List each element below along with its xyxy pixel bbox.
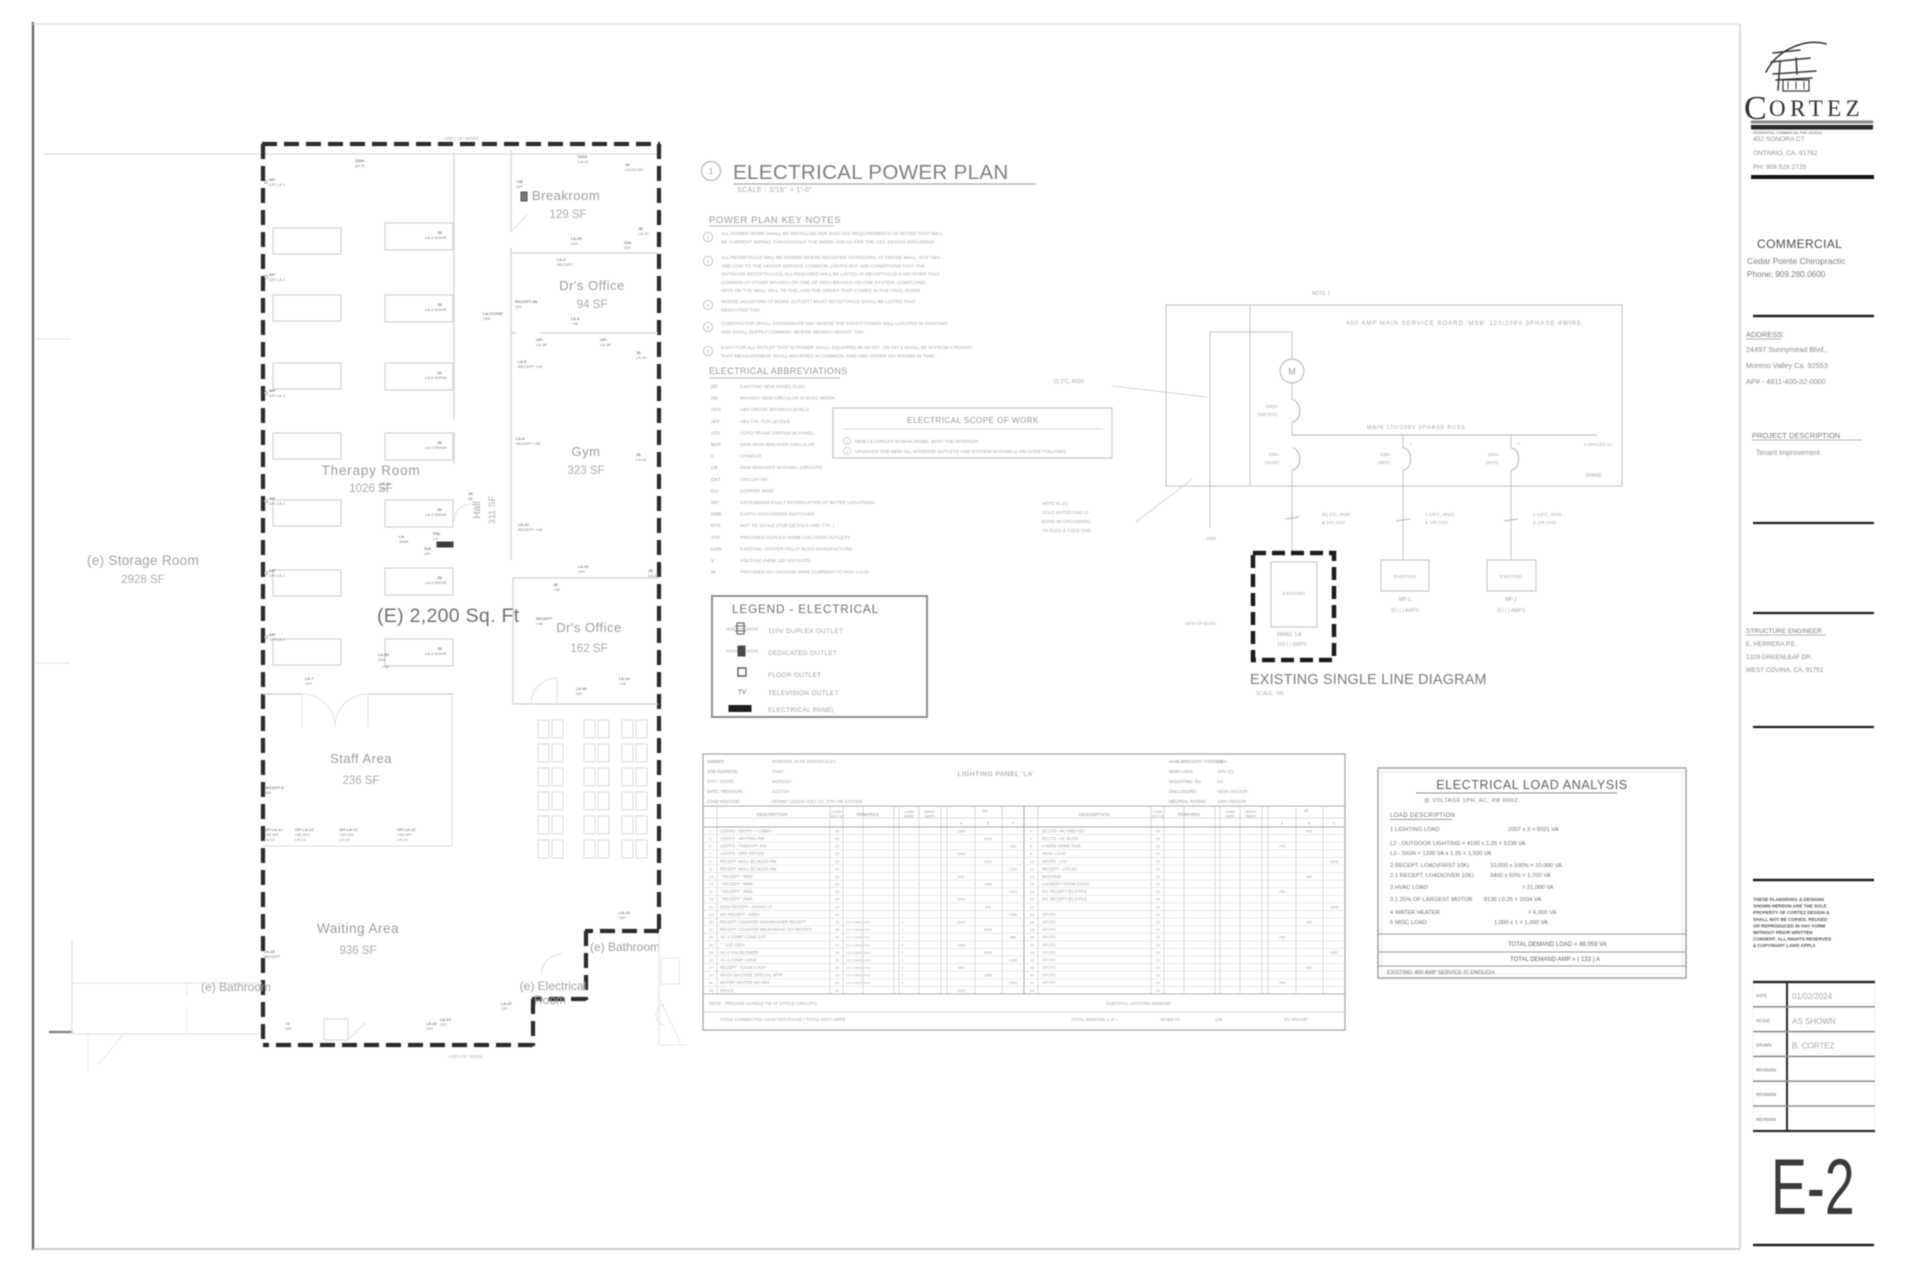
svg-text:SPARE: SPARE bbox=[1042, 950, 1056, 955]
revision table bbox=[1753, 982, 1875, 1131]
title block divider 3 bbox=[1753, 522, 1874, 524]
svg-text:12: 12 bbox=[1030, 867, 1034, 871]
svg-text:MAIN BREAKER / FEEDER:: MAIN BREAKER / FEEDER: bbox=[1169, 759, 1224, 764]
meter stub wire bbox=[1210, 331, 1292, 333]
key note 5 bubble bbox=[703, 346, 712, 355]
svg-text:RECEPT +48: RECEPT +48 bbox=[518, 527, 543, 532]
svg-text:BRKR: BRKR bbox=[1246, 810, 1256, 814]
svg-text:20: 20 bbox=[835, 829, 839, 833]
load analysis outer box bbox=[1378, 768, 1686, 978]
svg-text:GFI LA-1: GFI LA-1 bbox=[269, 393, 286, 398]
chair c1 r1 bbox=[538, 720, 549, 738]
svg-text:RECEPT - LTS (E): RECEPT - LTS (E) bbox=[1042, 866, 1077, 871]
svg-text:20: 20 bbox=[1156, 936, 1160, 940]
svg-text:A: A bbox=[960, 822, 963, 826]
svg-text:GFI: GFI bbox=[624, 245, 631, 250]
svg-text:GFI: GFI bbox=[515, 304, 522, 309]
svg-text:LA-44: LA-44 bbox=[648, 573, 659, 578]
svg-text:(E) 2"C, 4#3/0: (E) 2"C, 4#3/0 bbox=[1322, 512, 1351, 517]
svg-text:100A: 100A bbox=[1217, 759, 1227, 764]
svg-text:DATE / REVISION:: DATE / REVISION: bbox=[707, 789, 743, 794]
svg-text:11: 11 bbox=[709, 867, 713, 871]
svg-text:20: 20 bbox=[835, 883, 839, 887]
svg-text:100A: 100A bbox=[1487, 452, 1498, 457]
svg-text:750: 750 bbox=[1279, 936, 1285, 940]
svg-text:323 SF: 323 SF bbox=[567, 465, 604, 477]
storage shelf wall tick b bbox=[34, 662, 70, 664]
svg-text:1080: 1080 bbox=[1009, 913, 1017, 917]
svg-text:MORENO: MORENO bbox=[772, 779, 792, 784]
svg-text:2: 2 bbox=[901, 966, 903, 970]
svg-text:CONDUIT: CONDUIT bbox=[740, 454, 762, 460]
svg-text:2: 2 bbox=[901, 920, 903, 924]
svg-text:20: 20 bbox=[1156, 928, 1160, 932]
svg-text:19: 19 bbox=[709, 898, 713, 902]
svg-text:+48: +48 bbox=[571, 321, 579, 326]
svg-text:LA-40: LA-40 bbox=[636, 355, 647, 360]
therapy bed L1 bbox=[273, 228, 341, 254]
svg-text:(N): (N) bbox=[711, 396, 718, 402]
therapy bed L6 bbox=[273, 570, 341, 596]
svg-text:20: 20 bbox=[1156, 890, 1160, 894]
svg-text:1500: 1500 bbox=[1009, 890, 1017, 894]
svg-text:20: 20 bbox=[835, 943, 839, 947]
svg-text:RECEPT: RECEPT bbox=[264, 954, 281, 959]
svg-text:1: 1 bbox=[1518, 441, 1521, 446]
svg-text:TELEVISION OUTLET: TELEVISION OUTLET bbox=[768, 690, 839, 697]
svg-text:1500: 1500 bbox=[1330, 905, 1338, 909]
svg-text:4 WATER HEATER: 4 WATER HEATER bbox=[1390, 910, 1440, 916]
table row line 17 bbox=[703, 955, 1345, 957]
svg-text:WATER HEATER 20A WH: WATER HEATER 20A WH bbox=[720, 980, 769, 985]
svg-text:23: 23 bbox=[709, 913, 713, 917]
panel schedule center divider bbox=[1023, 806, 1025, 994]
svg-text:136: 136 bbox=[1215, 1017, 1223, 1022]
area-of-work dashed boundary step 1 bbox=[585, 929, 659, 933]
svg-text:39: 39 bbox=[709, 974, 713, 978]
svg-text:GFI: GFI bbox=[516, 184, 523, 189]
svg-text:ELECTRICAL PANEL: ELECTRICAL PANEL bbox=[768, 707, 835, 714]
svg-text:20: 20 bbox=[835, 898, 839, 902]
svg-text:EXISTING: EXISTING bbox=[1394, 574, 1417, 580]
panel schedule totals separator bbox=[703, 1011, 1345, 1013]
load analysis bottom separator bbox=[1378, 965, 1686, 967]
svg-text:ABV FIN. FLR LEVELS: ABV FIN. FLR LEVELS bbox=[740, 419, 790, 425]
svg-text:1200: 1200 bbox=[1009, 958, 1017, 962]
electrical room door arc bbox=[541, 954, 562, 975]
scope item 2 bbox=[843, 447, 850, 454]
svg-text:1500: 1500 bbox=[984, 951, 992, 955]
svg-text:GFI LA-1: GFI LA-1 bbox=[269, 277, 286, 282]
svg-text:1: 1 bbox=[846, 439, 849, 444]
svg-text:GROUNDING FAULT INTERRUPTER AT: GROUNDING FAULT INTERRUPTER AT WATER LOC… bbox=[740, 500, 875, 506]
svg-text:12-2 AWG #12: 12-2 AWG #12 bbox=[846, 966, 871, 970]
svg-text:LOAD VOLTAGE:: LOAD VOLTAGE: bbox=[707, 799, 741, 804]
svg-text:33: 33 bbox=[709, 951, 713, 955]
svg-text:THAT MEASUREMENT SHALL MOUNTED: THAT MEASUREMENT SHALL MOUNTED IN COMMON… bbox=[721, 353, 936, 359]
table row line 10 bbox=[703, 902, 1345, 904]
svg-text:LA-14: LA-14 bbox=[264, 837, 275, 842]
title block divider 1 bbox=[1751, 175, 1874, 179]
svg-text:RESIDENTIAL COMMERCIAL FIR: RESIDENTIAL COMMERCIAL FIRE DESIGN bbox=[1753, 131, 1822, 135]
svg-text:94 SF: 94 SF bbox=[577, 299, 608, 311]
panel schedule header band lines bbox=[703, 817, 1345, 819]
svg-text:EXISTING CENTER RELAY BLDG MAN: EXISTING CENTER RELAY BLDG MANUFACTURE bbox=[740, 546, 852, 552]
svg-text:GFI: GFI bbox=[571, 241, 578, 246]
svg-text:1: 1 bbox=[709, 829, 711, 833]
main distribution bus bbox=[1292, 434, 1597, 436]
svg-text:20: 20 bbox=[1156, 974, 1160, 978]
title block group bbox=[1744, 42, 1875, 1245]
svg-text:OWNER:: OWNER: bbox=[707, 759, 725, 764]
svg-text:E-2: E-2 bbox=[1771, 1144, 1855, 1232]
svg-text:VOLT-A: VOLT-A bbox=[830, 815, 843, 819]
svg-text:20: 20 bbox=[835, 974, 839, 978]
svg-text:EX. RECEPT (E) 6 PCS: EX. RECEPT (E) 6 PCS bbox=[1042, 889, 1087, 894]
svg-text:CB: CB bbox=[711, 465, 718, 471]
svg-text:SPARE: SPARE bbox=[1042, 919, 1056, 924]
svg-text:GFI: GFI bbox=[619, 915, 626, 920]
svg-text:2.1 RECEPT. LOAD(OVER 10K): 2.1 RECEPT. LOAD(OVER 10K) bbox=[1390, 873, 1474, 879]
service board inner divider bbox=[1249, 305, 1251, 486]
svg-text:38: 38 bbox=[1030, 966, 1034, 970]
svg-text:750: 750 bbox=[1279, 890, 1285, 894]
svg-text:01/17/24: 01/17/24 bbox=[772, 789, 789, 794]
legend dedicated outlet symbol bbox=[726, 650, 758, 653]
svg-text:200A: 200A bbox=[399, 539, 409, 544]
svg-text:AC-2 COMP COND: AC-2 COMP COND bbox=[720, 957, 757, 962]
table row line 19 bbox=[703, 970, 1345, 972]
svg-text:COPPER WIRE: COPPER WIRE bbox=[740, 488, 774, 494]
table row line 11 bbox=[703, 910, 1345, 912]
svg-text:(E) LTS - AC BLDG: (E) LTS - AC BLDG bbox=[1042, 836, 1078, 841]
feeder conduit tick MP-2 bbox=[1504, 519, 1518, 521]
svg-text:900: 900 bbox=[1306, 920, 1312, 924]
svg-text:WIRE: WIRE bbox=[1225, 815, 1235, 819]
svg-text:20: 20 bbox=[1156, 951, 1160, 955]
svg-text:311 SF: 311 SF bbox=[487, 495, 497, 524]
svg-text:EXISTING: EXISTING bbox=[1283, 591, 1306, 597]
svg-text:162 SF: 162 SF bbox=[570, 643, 607, 655]
key note 1 bubble bbox=[703, 232, 712, 241]
svg-text:CKT: CKT bbox=[711, 477, 721, 483]
therapy bed R6 bbox=[385, 568, 453, 595]
svg-text:750: 750 bbox=[1279, 981, 1285, 985]
svg-text:1-1/4"C, 4#1/0: 1-1/4"C, 4#1/0 bbox=[1533, 512, 1562, 517]
left wall receptacle symbols bbox=[264, 180, 267, 183]
sheet bottom border bbox=[33, 1248, 1740, 1250]
staff area east wall bbox=[451, 694, 453, 846]
hall door arc bbox=[454, 504, 471, 521]
legend electrical box bbox=[712, 596, 927, 717]
svg-text:DRAWN: DRAWN bbox=[1756, 1043, 1772, 1048]
svg-text:(2) 2"C, 4#3/0: (2) 2"C, 4#3/0 bbox=[1053, 379, 1084, 385]
svg-text:129 SF: 129 SF bbox=[549, 209, 586, 221]
svg-text:EX. RECEPT (E) 6 PCS: EX. RECEPT (E) 6 PCS bbox=[1042, 897, 1087, 902]
svg-text:5: 5 bbox=[709, 845, 711, 849]
svg-text:JOB ADDRESS:: JOB ADDRESS: bbox=[707, 769, 738, 774]
svg-text:AC-2 FAU BLOWER: AC-2 FAU BLOWER bbox=[720, 950, 758, 955]
area-of-work dashed boundary left bbox=[261, 144, 265, 1046]
storage room top wall bbox=[44, 153, 658, 155]
svg-text:30: 30 bbox=[1030, 936, 1034, 940]
svg-text:@ VOLTAGE 1PH, AC, 4W 60HZ: @ VOLTAGE 1PH, AC, 4W 60HZ bbox=[1424, 798, 1518, 804]
svg-text:LA-14: LA-14 bbox=[295, 837, 306, 842]
svg-text:& COPYRIGHT LAWS APPLY.: & COPYRIGHT LAWS APPLY. bbox=[1753, 943, 1816, 948]
svg-text:SPARE: SPARE bbox=[1042, 965, 1056, 970]
load analysis amp separator bbox=[1378, 951, 1686, 953]
svg-text:OR REPRODUCED IN ANY FORM: OR REPRODUCED IN ANY FORM bbox=[1753, 923, 1825, 928]
svg-text:1-1/4"C, 4#1/0: 1-1/4"C, 4#1/0 bbox=[1425, 512, 1454, 517]
svg-text:20: 20 bbox=[835, 837, 839, 841]
svg-text:WHERE MOUNTING AT WORK OUTLET: WHERE MOUNTING AT WORK OUTLET / MUST REC… bbox=[721, 299, 916, 305]
svg-text:7: 7 bbox=[709, 852, 711, 856]
table row line 1 bbox=[703, 834, 1345, 836]
svg-text:20: 20 bbox=[835, 890, 839, 894]
svg-text:16: 16 bbox=[1030, 883, 1034, 887]
area-of-work dashed boundary bottom bbox=[263, 1043, 533, 1047]
bathroom exterior wall a bbox=[72, 982, 262, 984]
svg-text:24497: 24497 bbox=[772, 769, 785, 774]
svg-text:200A (E): 200A (E) bbox=[1217, 769, 1234, 774]
svg-text:SCALE : 3/16" = 1'-0": SCALE : 3/16" = 1'-0" bbox=[737, 187, 812, 194]
svg-text:ALL POWER WORK SHALL BE INSTAL: ALL POWER WORK SHALL BE INSTALLED PER 20… bbox=[721, 231, 943, 237]
svg-text:1: 1 bbox=[709, 167, 714, 176]
svg-text:SPARE: SPARE bbox=[1042, 957, 1056, 962]
svg-text:LA: LA bbox=[433, 536, 438, 541]
table row line 6 bbox=[703, 872, 1345, 874]
key note 4 bubble bbox=[703, 322, 712, 331]
svg-text:L3 - SIGN = 1200 VA x 1.25 = 1: L3 - SIGN = 1200 VA x 1.25 = 1,500 VA bbox=[1390, 851, 1491, 857]
svg-text:236 SF: 236 SF bbox=[342, 775, 379, 787]
svg-text:TOTAL DEMAND AMP = ( 133 ) A: TOTAL DEMAND AMP = ( 133 ) A bbox=[1510, 957, 1600, 963]
svg-text:LA-9 500VA: LA-9 500VA bbox=[425, 235, 447, 240]
svg-text:REMODEL IN RE-DESIGN ELEC: REMODEL IN RE-DESIGN ELEC bbox=[772, 759, 836, 764]
table row line 7 bbox=[703, 879, 1345, 881]
chair c1 r6 bbox=[538, 840, 549, 858]
svg-text:W: W bbox=[711, 570, 716, 576]
svg-text:2: 2 bbox=[707, 259, 710, 264]
staff counter line bbox=[263, 845, 452, 847]
svg-text:NEW / 6 CIRCUIT IN MAIN PANEL: NEW / 6 CIRCUIT IN MAIN PANEL WITH THE I… bbox=[855, 439, 979, 445]
svg-text:GFI: GFI bbox=[424, 551, 431, 556]
table row line 8 bbox=[703, 887, 1345, 889]
svg-text:PERMIT 120/240 VOLT AC, 3 PH 4: PERMIT 120/240 VOLT AC, 3 PH 4W SYSTEM bbox=[772, 799, 863, 804]
svg-text:AREA OF WORK: AREA OF WORK bbox=[444, 136, 479, 141]
svg-text:8136 | 0.25 = 2034 VA: 8136 | 0.25 = 2034 VA bbox=[1484, 897, 1541, 903]
svg-text:REMARKS: REMARKS bbox=[857, 812, 879, 817]
svg-text:NOT TO SCALE (FOR DETAILS AND: NOT TO SCALE (FOR DETAILS AND TYP. ) bbox=[740, 523, 835, 529]
svg-text:Waiting Area: Waiting Area bbox=[317, 921, 399, 936]
svg-text:1200: 1200 bbox=[957, 898, 965, 902]
floor plan group bbox=[44, 136, 687, 1071]
svg-text:GND: GND bbox=[1206, 536, 1217, 541]
svg-text:1080: 1080 bbox=[984, 883, 992, 887]
svg-text:24: 24 bbox=[1030, 913, 1034, 917]
svg-text:AMPS: AMPS bbox=[925, 815, 936, 819]
svg-text:48: 48 bbox=[468, 496, 473, 501]
svg-text:GFI'S ON THE WALL WILL TO THE,: GFI'S ON THE WALL WILL TO THE, AND THE O… bbox=[721, 288, 921, 294]
right bathroom fixtures bbox=[661, 958, 679, 984]
svg-text:" RECEPT " RMS: " RECEPT " RMS bbox=[720, 882, 753, 887]
svg-text:REVISION: REVISION bbox=[1756, 1067, 1776, 1072]
svg-text:PANEL 'LA': PANEL 'LA' bbox=[1277, 632, 1302, 638]
sheet left border bbox=[32, 22, 34, 1250]
svg-text:RECEPT COUNTER DISHWASHER REC: RECEPT COUNTER DISHWASHER RECEPT bbox=[720, 919, 807, 924]
svg-text:E. HERRERA P.E.: E. HERRERA P.E. bbox=[1746, 641, 1797, 648]
svg-text:EXISTING: EXISTING bbox=[1500, 574, 1523, 580]
svg-text:1: 1 bbox=[1410, 441, 1413, 446]
svg-text:SCALE: SCALE bbox=[1756, 1018, 1770, 1023]
svg-text:LA-38: LA-38 bbox=[536, 342, 547, 347]
svg-text:AS SHOWN: AS SHOWN bbox=[1792, 1017, 1836, 1026]
svg-text:20: 20 bbox=[1156, 852, 1160, 856]
svg-text:PROVIDED DUPLEX HOME LOCATION: PROVIDED DUPLEX HOME LOCATION OUTLETS bbox=[740, 535, 850, 541]
svg-text:LIGHTING PANEL 'LA': LIGHTING PANEL 'LA' bbox=[958, 771, 1035, 778]
svg-text:21: 21 bbox=[709, 905, 713, 909]
svg-text:NEW EP BUSS: NEW EP BUSS bbox=[1185, 621, 1216, 626]
feeder conduit tick MP-1 bbox=[1396, 519, 1410, 521]
svg-text:Room: Room bbox=[534, 993, 566, 1007]
svg-text:PROPERTY OF CORTEZ DESIGN &: PROPERTY OF CORTEZ DESIGN & bbox=[1753, 910, 1830, 915]
svg-text:CONTRACTOR SHALL COORDINATE AN: CONTRACTOR SHALL COORDINATE ANY WHERE TH… bbox=[721, 321, 948, 327]
svg-text:1329 GREENLEAF DR.: 1329 GREENLEAF DR. bbox=[1746, 654, 1813, 661]
svg-text:CITY / STATE:: CITY / STATE: bbox=[707, 779, 735, 784]
svg-text:10,000 x 100% = 10,000 VA: 10,000 x 100% = 10,000 VA bbox=[1490, 863, 1562, 869]
table row line 9 bbox=[703, 894, 1345, 896]
svg-text:(E) ( ) AMPS: (E) ( ) AMPS bbox=[1391, 608, 1420, 614]
svg-text:LA-38: LA-38 bbox=[600, 342, 611, 347]
svg-text:HVAC LOAD: HVAC LOAD bbox=[1042, 851, 1066, 856]
svg-text:4: 4 bbox=[1030, 837, 1032, 841]
table row line 20 bbox=[703, 978, 1345, 980]
svg-text:20: 20 bbox=[835, 860, 839, 864]
svg-text:37: 37 bbox=[709, 966, 713, 970]
chair c2 r1 bbox=[584, 720, 595, 738]
svg-text:20: 20 bbox=[1156, 867, 1160, 871]
svg-text:1500: 1500 bbox=[957, 829, 965, 833]
table row line 13 bbox=[703, 925, 1345, 927]
svg-text:= 21,000 VA: = 21,000 VA bbox=[1522, 885, 1554, 891]
svg-text:36: 36 bbox=[1030, 958, 1034, 962]
svg-text:LA-21: LA-21 bbox=[578, 159, 589, 164]
svg-text:NEUTRAL RATING:: NEUTRAL RATING: bbox=[1169, 799, 1207, 804]
svg-text:DESCRIPTION: DESCRIPTION bbox=[1079, 812, 1110, 817]
svg-text:Phone: 909.280.0600: Phone: 909.280.0600 bbox=[1747, 270, 1826, 279]
chair c3 r6 bbox=[622, 840, 633, 858]
svg-text:MP-2: MP-2 bbox=[1505, 597, 1517, 603]
legend electrical panel symbol bbox=[729, 706, 751, 712]
svg-text:2007 x 3 = 6021 VA: 2007 x 3 = 6021 VA bbox=[1508, 827, 1559, 833]
svg-text:MOUNTING: SU: MOUNTING: SU bbox=[1169, 779, 1201, 784]
svg-text:LA-14: LA-14 bbox=[339, 837, 350, 842]
svg-text:3.1 25% OF LARGEST MOTOR: 3.1 25% OF LARGEST MOTOR bbox=[1390, 897, 1473, 903]
svg-text:UON: UON bbox=[711, 546, 722, 552]
svg-text:1200: 1200 bbox=[984, 837, 992, 841]
svg-text:AP# - 4811-400-32-0000: AP# - 4811-400-32-0000 bbox=[1746, 377, 1826, 386]
svg-text:NOTE #1 (E): NOTE #1 (E) bbox=[1042, 501, 1069, 506]
svg-text:2: 2 bbox=[901, 958, 903, 962]
svg-text:43: 43 bbox=[709, 989, 713, 993]
svg-text:LA-27: LA-27 bbox=[638, 231, 649, 236]
svg-text:1: 1 bbox=[707, 235, 710, 240]
chair c2 r4 bbox=[584, 792, 595, 810]
svg-text:20: 20 bbox=[1156, 875, 1160, 879]
breakroom south wall bbox=[511, 252, 658, 254]
svg-text:WEST COVINA, CA. 91751: WEST COVINA, CA. 91751 bbox=[1746, 667, 1824, 674]
svg-text:(e) Bathroom: (e) Bathroom bbox=[201, 980, 271, 994]
svg-text:UPGRADE THE NEW ALL INTERIOR O: UPGRADE THE NEW ALL INTERIOR OUTLETS AND… bbox=[855, 449, 1066, 455]
svg-text:AC-1 COMP COND 3.5T: AC-1 COMP COND 3.5T bbox=[720, 935, 767, 940]
svg-text:MP-1: MP-1 bbox=[1399, 597, 1411, 603]
svg-text:SPARE: SPARE bbox=[1585, 473, 1602, 479]
panel MP-1 box bbox=[1381, 560, 1429, 591]
svg-text:48,059 VA: 48,059 VA bbox=[1160, 1017, 1180, 1022]
svg-text:LIGHTS - THERAPY RM: LIGHTS - THERAPY RM bbox=[720, 844, 767, 849]
svg-text:RECEPT WALL (E) BLDG-RM: RECEPT WALL (E) BLDG-RM bbox=[720, 859, 777, 864]
service entrance conductor riser bbox=[1209, 332, 1211, 486]
svg-text:(BKR): (BKR) bbox=[1378, 460, 1391, 465]
svg-text:12-2 AWG #12: 12-2 AWG #12 bbox=[846, 943, 871, 947]
svg-text:20: 20 bbox=[1156, 898, 1160, 902]
svg-text:GFI LA-1: GFI LA-1 bbox=[269, 573, 286, 578]
svg-text:SPACE: SPACE bbox=[720, 988, 734, 993]
svg-text:WASH MACHINE SPECIAL WTR: WASH MACHINE SPECIAL WTR bbox=[720, 973, 782, 978]
svg-text:C: C bbox=[1012, 822, 1015, 826]
svg-text:900: 900 bbox=[958, 966, 964, 970]
utility meter M bbox=[1280, 359, 1304, 383]
svg-text:+48: +48 bbox=[536, 621, 544, 626]
electrical load analysis group bbox=[1378, 768, 1686, 978]
svg-text:CONSENT. ALL RIGHTS RESERVED: CONSENT. ALL RIGHTS RESERVED bbox=[1753, 937, 1832, 942]
svg-text:CIRCUIT NO.: CIRCUIT NO. bbox=[740, 477, 769, 483]
svg-text:TV: TV bbox=[738, 689, 747, 696]
svg-text:20: 20 bbox=[1156, 860, 1160, 864]
therapy bed R7 bbox=[385, 639, 453, 666]
svg-text:SUBTOTAL LIGHTING DEMAND: SUBTOTAL LIGHTING DEMAND bbox=[1106, 1001, 1171, 1006]
chair c3 r5 bbox=[622, 816, 633, 834]
svg-text:2: 2 bbox=[1030, 829, 1032, 833]
svg-text:34: 34 bbox=[1030, 951, 1034, 955]
svg-text:29: 29 bbox=[709, 936, 713, 940]
chair c1 r3 bbox=[538, 768, 549, 786]
svg-text:GFI: GFI bbox=[305, 681, 312, 686]
svg-text:REMARKS: REMARKS bbox=[1178, 812, 1200, 817]
svg-text:3400 x 50% = 1,700 VA: 3400 x 50% = 1,700 VA bbox=[1490, 873, 1551, 879]
svg-text:A: A bbox=[1281, 822, 1284, 826]
main service board enclosure bbox=[1166, 305, 1622, 486]
svg-text:+15: +15 bbox=[619, 681, 627, 686]
chair c1 r5 bbox=[538, 816, 549, 834]
svg-text:C: C bbox=[1333, 822, 1336, 826]
svg-text:(METER): (METER) bbox=[1258, 412, 1277, 417]
svg-text:ELECTRICAL POWER PLAN: ELECTRICAL POWER PLAN bbox=[733, 161, 1009, 184]
svg-text:SPARE: SPARE bbox=[1042, 912, 1056, 917]
branch breaker 200A main bbox=[1292, 448, 1300, 470]
bathroom door swing bbox=[87, 1034, 89, 1071]
svg-text:PH: 909.528.2725: PH: 909.528.2725 bbox=[1753, 164, 1806, 171]
panel schedule table group bbox=[703, 754, 1345, 1030]
title block divider 6 bbox=[1753, 879, 1874, 882]
therapy bed R1 bbox=[385, 223, 453, 250]
svg-text:2: 2 bbox=[901, 974, 903, 978]
svg-text:28: 28 bbox=[1030, 928, 1034, 932]
table row line 12 bbox=[703, 917, 1345, 919]
svg-text:20: 20 bbox=[1156, 920, 1160, 924]
svg-text:20A: 20A bbox=[264, 790, 271, 795]
svg-text:L2 - OUTDOOR LIGHTING = 4190 x: L2 - OUTDOOR LIGHTING = 4190 x 1.25 = 52… bbox=[1390, 841, 1526, 847]
svg-text:EARTH GROUNDING SWITCHES: EARTH GROUNDING SWITCHES bbox=[740, 512, 814, 518]
